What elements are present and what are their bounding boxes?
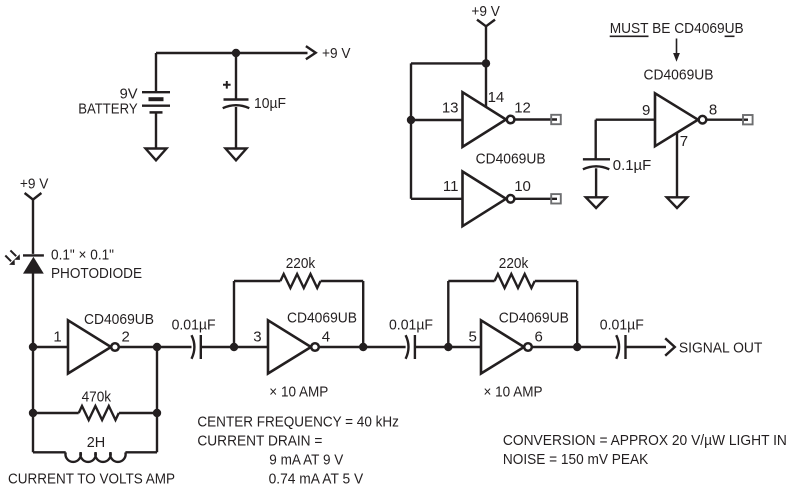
svg-text:+9 V: +9 V: [471, 3, 500, 20]
wire pin 6 output: [532, 346, 616, 348]
light arrows into photodiode: [5, 250, 20, 265]
svg-text:9: 9: [642, 102, 650, 119]
wire pin 12 output: [514, 118, 557, 120]
power symbol +9V (top-middle): [477, 20, 495, 64]
inverter U1B (pins 3-4): [268, 320, 319, 373]
wire pin 5 input: [448, 346, 481, 348]
svg-text:470k: 470k: [82, 389, 112, 406]
svg-text:+9 V: +9 V: [20, 175, 49, 192]
svg-text:0.01µF: 0.01µF: [389, 316, 433, 333]
svg-text:NOISE = 150 mV PEAK: NOISE = 150 mV PEAK: [503, 452, 649, 468]
junction dot output U1A: [153, 343, 161, 351]
node +9 V supply (top-middle): [471, 3, 500, 20]
svg-text:CD4069UB: CD4069UB: [476, 151, 546, 168]
wire pin 2 output: [119, 346, 192, 348]
svg-text:9 mA AT 9 V: 9 mA AT 9 V: [269, 453, 343, 469]
junction dot input U1A: [29, 343, 37, 351]
junction dot supply: [482, 59, 490, 67]
ground (battery): [146, 149, 167, 161]
svg-text:0.1" × 0.1": 0.1" × 0.1": [51, 246, 114, 263]
ground (pin 7): [667, 197, 688, 208]
terminal square (pin 10): [551, 194, 561, 203]
wire left input bus: [410, 63, 412, 198]
svg-text:× 10 AMP: × 10 AMP: [269, 383, 328, 400]
svg-text:14: 14: [488, 89, 505, 106]
junction dot output U1C: [573, 343, 581, 351]
svg-text:12: 12: [514, 99, 531, 116]
junction dot 470k right: [153, 409, 161, 417]
resistor R3 220k: [448, 274, 577, 288]
battery label 9V BATTERY: [78, 85, 137, 117]
svg-text:0.1µF: 0.1µF: [613, 157, 652, 174]
wire input bus down to C2: [595, 120, 597, 160]
junction dot input U1C: [444, 343, 452, 351]
wire battery top rail to +9V arrow: [156, 46, 316, 59]
wire pin 10 output: [514, 198, 557, 200]
svg-text:0.01µF: 0.01µF: [600, 316, 644, 333]
inverter U1F (pins 9-8): [655, 93, 706, 146]
junction dot 470k left: [29, 409, 37, 417]
wire pin 9 input: [596, 118, 655, 120]
photodiode D1: [23, 255, 44, 347]
inverter U1A (pins 1-2): [68, 320, 119, 373]
svg-text:11: 11: [443, 178, 459, 195]
wire pin 14 supply: [485, 63, 487, 107]
svg-text:4: 4: [322, 329, 330, 346]
inductor L1 2H: [33, 452, 157, 462]
inverter U1E (pins 11-10): [463, 172, 515, 227]
svg-text:BATTERY: BATTERY: [78, 100, 137, 117]
wire pin 11 input: [411, 198, 463, 200]
resistor R1 470k: [33, 406, 157, 420]
wire supply rail to left bus: [411, 62, 486, 64]
capacitor C3 0.01uF: [192, 335, 235, 359]
svg-text:3: 3: [253, 329, 261, 346]
svg-text:2H: 2H: [87, 434, 106, 451]
svg-text:CD4069UB: CD4069UB: [84, 311, 154, 328]
capacitor C2 0.1uF: [583, 159, 610, 197]
junction dot rail/capacitor: [232, 49, 240, 57]
arrow note pointer: [673, 39, 680, 62]
feedback loop U1B left: [233, 281, 235, 347]
svg-text:CENTER FREQUENCY = 40 kHz: CENTER FREQUENCY = 40 kHz: [197, 414, 399, 430]
wire right bus U1A: [156, 347, 158, 452]
wire pin 3 input: [234, 346, 268, 348]
svg-text:7: 7: [680, 133, 688, 150]
terminal square (pin 8): [743, 115, 753, 124]
underline MUST: [610, 35, 649, 37]
svg-text:SIGNAL OUT: SIGNAL OUT: [679, 339, 763, 356]
svg-text:6: 6: [535, 329, 543, 346]
svg-text:1: 1: [53, 329, 61, 346]
svg-text:10µF: 10µF: [254, 95, 286, 112]
wire pin 7 to ground: [676, 133, 678, 198]
svg-text:CD4069UB: CD4069UB: [644, 67, 714, 84]
terminal square (pin 12): [551, 115, 561, 124]
capacitor C1 10uF: [223, 53, 250, 149]
junction dot input U1B: [230, 343, 238, 351]
note MUST BE CD4069UB: [610, 20, 744, 37]
wire pin 13 input: [411, 119, 463, 121]
svg-text:CD4069UB: CD4069UB: [499, 309, 569, 326]
wire pin 4 output: [319, 346, 406, 348]
feedback loop U1C right: [576, 281, 578, 347]
capacitor C5 0.01uF: [616, 335, 666, 359]
ground (C2): [586, 197, 607, 208]
inverter U1D (pins 13-12): [463, 92, 515, 147]
wire pin 8 output: [706, 118, 748, 120]
svg-text:0.74 mA AT 5 V: 0.74 mA AT 5 V: [269, 472, 364, 488]
svg-text:220k: 220k: [499, 255, 529, 272]
junction dot input bus: [407, 116, 415, 124]
svg-text:13: 13: [442, 99, 459, 116]
svg-text:CONVERSION = APPROX 20 V/µW LI: CONVERSION = APPROX 20 V/µW LIGHT IN: [503, 433, 787, 449]
wire pin 1 input: [33, 346, 68, 348]
power symbol +9V (photodiode): [25, 193, 42, 254]
svg-text:2: 2: [122, 329, 130, 346]
ground (capacitor C1): [226, 149, 247, 161]
svg-text:× 10 AMP: × 10 AMP: [484, 383, 543, 400]
svg-text:PHOTODIODE: PHOTODIODE: [51, 265, 142, 282]
svg-text:10: 10: [514, 178, 531, 195]
svg-text:CD4069UB: CD4069UB: [287, 309, 357, 326]
wire left bus down to 2H: [32, 347, 34, 452]
svg-text:8: 8: [709, 101, 717, 118]
svg-text:+9 V: +9 V: [322, 45, 351, 62]
battery B1 9V: [142, 53, 170, 149]
svg-text:5: 5: [469, 329, 477, 346]
inverter U1C (pins 5-6): [481, 320, 532, 373]
svg-text:220k: 220k: [286, 255, 316, 272]
junction dot output U1B: [359, 343, 367, 351]
arrow signal out: [665, 338, 675, 355]
underline U: [725, 35, 735, 37]
feedback loop U1C left: [447, 281, 449, 347]
svg-text:CURRENT DRAIN =: CURRENT DRAIN =: [197, 433, 322, 449]
svg-text:0.01µF: 0.01µF: [172, 317, 216, 334]
svg-text:CURRENT TO VOLTS AMP: CURRENT TO VOLTS AMP: [8, 470, 175, 487]
capacitor C4 0.01uF: [406, 335, 449, 359]
feedback loop U1B right: [362, 281, 364, 347]
svg-text:MUST BE CD4069UB: MUST BE CD4069UB: [610, 20, 744, 37]
resistor R2 220k: [234, 274, 363, 288]
